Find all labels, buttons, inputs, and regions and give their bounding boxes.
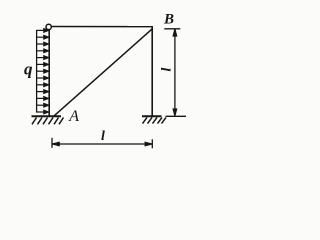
hatching of right support (143, 117, 167, 123)
wire: right column (151, 27, 153, 117)
hatching of left support (32, 118, 64, 125)
wire: top beam B side (52, 26, 153, 28)
svg-text:q: q (24, 60, 33, 79)
distributed load arrows (13, pointing right at the column) (37, 29, 49, 114)
distributed load q: left rail (36, 30, 38, 113)
ground line of right support (142, 115, 162, 117)
svg-text:l: l (101, 129, 105, 144)
svg-text:A: A (68, 108, 79, 125)
svg-text:l: l (159, 68, 174, 72)
ground line of left support (32, 115, 62, 117)
dimension line bottom (horizontal, length l) (52, 138, 152, 149)
dimension line right (vertical, length l) (164, 29, 186, 117)
hinge circle at top of left column (46, 24, 51, 29)
svg-text:B: B (163, 12, 174, 28)
wire: diagonal brace from support A to top-right corner (53, 29, 152, 117)
wire: left column (48, 30, 50, 117)
